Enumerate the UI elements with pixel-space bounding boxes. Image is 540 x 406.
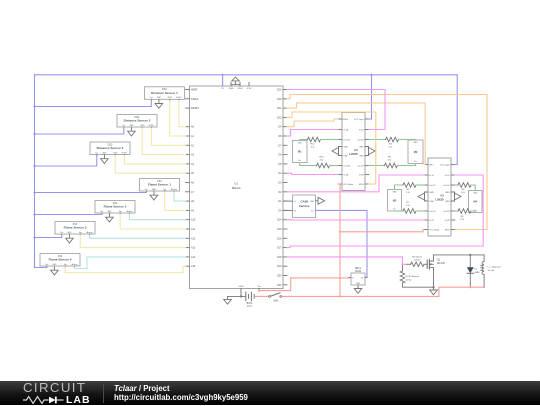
svg-text:6 Ω: 6 Ω bbox=[389, 147, 393, 149]
svg-text:R4: R4 bbox=[389, 144, 393, 146]
svg-text:EN D: EN D bbox=[445, 230, 450, 232]
svg-text:A13: A13 bbox=[191, 247, 196, 250]
svg-text:D20: D20 bbox=[277, 275, 282, 278]
wire DS1 TRIG to U1 A1 bbox=[170, 101, 186, 137]
svg-text:In: In bbox=[352, 278, 354, 280]
wire 5V branch to FS2 Vcc bbox=[35, 213, 102, 215]
svg-text:Camera: Camera bbox=[299, 204, 310, 208]
ground at Q1 source bbox=[433, 287, 435, 290]
wire 5V to U3 VCC Logic bbox=[455, 75, 457, 165]
svg-text:GND: GND bbox=[359, 147, 364, 149]
ground below DS3 bbox=[103, 156, 105, 159]
ground below DS1 bbox=[158, 101, 160, 104]
sensor DS2 Distance Sensor 2 bbox=[117, 115, 157, 128]
svg-text:In 2D: In 2D bbox=[445, 220, 450, 222]
svg-text:M4: M4 bbox=[473, 200, 477, 204]
wire battery rail bbox=[282, 287, 485, 296]
svg-text:In 1C: In 1C bbox=[429, 175, 434, 177]
svg-text:TRIG: TRIG bbox=[113, 152, 118, 154]
wire U1 D13 to U2 In1B bbox=[287, 90, 385, 130]
svg-text:GND: GND bbox=[343, 147, 348, 149]
svg-text:Out 1A: Out 1A bbox=[343, 139, 350, 142]
svg-text:10 kΩ: 10 kΩ bbox=[406, 279, 412, 281]
svg-text:Vcc: Vcc bbox=[145, 189, 148, 191]
wire to U3 VCC Motor bbox=[340, 230, 424, 232]
wire 5V branch to FS4 Vcc bbox=[35, 266, 47, 268]
svg-text:Analog: Analog bbox=[72, 263, 78, 266]
battery BAT1 12V bbox=[228, 295, 246, 297]
svg-text:GND: GND bbox=[229, 88, 234, 90]
svg-text:IRF130: IRF130 bbox=[437, 262, 446, 265]
svg-text:Analog: Analog bbox=[87, 231, 93, 234]
svg-text:GND: GND bbox=[359, 156, 364, 158]
motor M1 bbox=[293, 141, 308, 163]
svg-text:Out 1C: Out 1C bbox=[429, 184, 436, 187]
wire DS1 ECHO to U1 A0 bbox=[179, 101, 186, 127]
wire DS2 ECHO to U1 A2 bbox=[151, 128, 185, 145]
svg-text:M2: M2 bbox=[414, 150, 418, 154]
svg-text:Vcc: Vcc bbox=[100, 211, 103, 213]
op-amp U1 Arduino MEGA microcontroller bbox=[190, 86, 284, 289]
svg-text:VCC Motor: VCC Motor bbox=[429, 229, 439, 232]
svg-text:GND: GND bbox=[157, 97, 162, 99]
svg-text:270 Ω: 270 Ω bbox=[414, 260, 420, 262]
wire U1 D11 to U3 EN C bbox=[287, 103, 425, 165]
ground below FS2 bbox=[108, 214, 110, 217]
sensor DS1 Distance Sensor 1 bbox=[145, 87, 185, 100]
wire FS3 Dig to U1 A13 bbox=[80, 235, 185, 247]
wire U1 D9 to U2 EN A bbox=[287, 119, 338, 127]
svg-text:Dig: Dig bbox=[119, 211, 122, 213]
svg-text:D17: D17 bbox=[277, 247, 282, 250]
svg-text:D13: D13 bbox=[277, 89, 282, 92]
resistor R7 6ohm + wire U3 Out2C to M3 bottom bbox=[395, 210, 404, 212]
motor M4 bbox=[469, 191, 483, 213]
CircuitLab logo bbox=[23, 383, 95, 406]
wire 5V branch to DS3 Vcc bbox=[35, 156, 97, 166]
resistor R4 6ohm + wire U2 Out1B to M2 top bbox=[369, 139, 386, 141]
svg-text:TRIG: TRIG bbox=[140, 125, 145, 127]
svg-text:Out 2D: Out 2D bbox=[443, 210, 450, 213]
wire VCC Motor feed vertical bbox=[339, 184, 341, 296]
wire U1 D18 to Q1 gate resistor bbox=[287, 257, 407, 264]
svg-text:Vcc: Vcc bbox=[393, 209, 396, 211]
svg-text:R10: R10 bbox=[319, 156, 324, 158]
ground below FS4 bbox=[53, 267, 55, 270]
ground flag above U1 GND pins bbox=[231, 84, 240, 86]
svg-text:12 V: 12 V bbox=[247, 305, 252, 308]
ground at battery negative bbox=[227, 296, 229, 299]
svg-text:GND: GND bbox=[343, 156, 348, 158]
svg-text:Analog: Analog bbox=[127, 210, 133, 213]
svg-text:A15: A15 bbox=[191, 265, 196, 268]
ground below SRV1 bbox=[357, 285, 359, 289]
svg-text:Dig: Dig bbox=[64, 264, 67, 266]
op-amp U2 L293D motor driver bbox=[342, 113, 365, 191]
wire 5V branch to DS2 Vcc bbox=[35, 128, 124, 134]
svg-text:Vcc: Vcc bbox=[311, 210, 314, 212]
wire U1 D14 to U3 In2C bbox=[287, 219, 424, 221]
svg-text:Distance Sensor 1: Distance Sensor 1 bbox=[151, 91, 178, 95]
svg-text:SG90: SG90 bbox=[355, 270, 362, 273]
resistor R10 6ohm + wire U2 Out2A to M1 bottom bbox=[300, 163, 317, 166]
wire U1 D12 to U3 EN D bbox=[287, 95, 487, 230]
svg-text:GND: GND bbox=[393, 192, 398, 194]
ground below FS1 bbox=[153, 192, 155, 195]
svg-text:GND: GND bbox=[238, 88, 243, 90]
wire U1 D10 to U2 EN B bbox=[287, 112, 376, 184]
wire FS1 Analog to U1 A8 bbox=[174, 192, 186, 201]
sensor FS4 Flame Sensor 4 bbox=[40, 254, 80, 267]
svg-text:VCC Logic: VCC Logic bbox=[354, 119, 364, 121]
resistor R9 6ohm + wire U3 Out2D to M4 bottom bbox=[455, 210, 458, 212]
svg-text:Out 1B: Out 1B bbox=[357, 139, 364, 142]
svg-text:Flame Sensor 3: Flame Sensor 3 bbox=[64, 226, 87, 230]
svg-text:Vcc: Vcc bbox=[95, 152, 98, 154]
svg-text:GND: GND bbox=[445, 192, 450, 194]
wire Vin loop from U1 Vin bbox=[259, 278, 349, 292]
wire 5V branch to DS1 Vcc bbox=[35, 101, 152, 107]
svg-text:Vcc: Vcc bbox=[150, 97, 153, 99]
wire U1 D4 to U2 In2A bbox=[287, 173, 338, 174]
wire U1 D2 to U3 In1C bbox=[287, 175, 424, 192]
svg-text:ECHO: ECHO bbox=[149, 125, 155, 127]
switch SW1 bbox=[255, 295, 269, 297]
camera CAM1 bbox=[293, 195, 316, 218]
svg-text:R3: R3 bbox=[388, 156, 392, 158]
svg-text:ECHO: ECHO bbox=[122, 152, 128, 154]
svg-text:GND: GND bbox=[445, 201, 450, 203]
svg-text:RESET: RESET bbox=[191, 107, 200, 110]
svg-text:In 2B: In 2B bbox=[359, 175, 364, 177]
svg-text:3.3V: 3.3V bbox=[247, 88, 252, 90]
svg-text:R3 (Pulldown): R3 (Pulldown) bbox=[406, 276, 420, 278]
svg-text:Vcc: Vcc bbox=[414, 161, 417, 163]
svg-text:GND: GND bbox=[239, 286, 244, 288]
resistor R12 6ohm + wire U2 Out1A to M1 top bbox=[300, 140, 308, 141]
wire 5V to U2 VCC Logic bbox=[369, 75, 372, 119]
svg-text:GND: GND bbox=[67, 232, 72, 234]
svg-text:D14: D14 bbox=[277, 219, 282, 222]
sensor FS1 Flame Sensor 1 bbox=[140, 179, 180, 192]
svg-text:GND: GND bbox=[129, 125, 134, 127]
svg-text:IOREF: IOREF bbox=[191, 98, 199, 101]
svg-text:SW1: SW1 bbox=[273, 300, 279, 303]
svg-text:EN C: EN C bbox=[429, 165, 434, 167]
svg-text:GND: GND bbox=[102, 152, 107, 154]
svg-text:Out 2B: Out 2B bbox=[357, 165, 364, 168]
svg-text:In 2A: In 2A bbox=[343, 174, 348, 177]
wire 5V blue bus bbox=[35, 74, 458, 76]
svg-text:D19: D19 bbox=[277, 265, 282, 268]
svg-text:VCC Motor: VCC Motor bbox=[343, 183, 353, 186]
svg-text:MEGA: MEGA bbox=[232, 186, 241, 190]
svg-text:GND: GND bbox=[429, 201, 434, 203]
svg-text:Dig: Dig bbox=[163, 189, 166, 191]
svg-text:6 Ω: 6 Ω bbox=[406, 205, 410, 207]
resistor R3 pulldown 10kohm bbox=[400, 271, 405, 283]
svg-text:Analog: Analog bbox=[171, 188, 177, 191]
svg-text:A12: A12 bbox=[191, 237, 196, 240]
svg-text:10 mH: 10 mH bbox=[488, 270, 495, 272]
svg-text:Out 1D: Out 1D bbox=[443, 184, 450, 187]
svg-text:R8: R8 bbox=[462, 189, 466, 191]
wire 5V branch to FS1 Vcc bbox=[35, 191, 147, 193]
svg-text:Flame Sensor 4: Flame Sensor 4 bbox=[49, 258, 72, 262]
transistor Q1 IRF130 bbox=[426, 260, 428, 268]
svg-text:5MM: 5MM bbox=[475, 272, 480, 274]
svg-text:A11: A11 bbox=[191, 228, 196, 231]
svg-text:Flame Sensor 2: Flame Sensor 2 bbox=[104, 205, 127, 209]
svg-text:GND: GND bbox=[473, 193, 478, 195]
motor M3 bbox=[388, 190, 402, 212]
svg-text:GND: GND bbox=[298, 143, 303, 145]
op-amp U3 L293D motor driver bbox=[428, 158, 451, 236]
wire FS3 Analog to U1 A12 bbox=[89, 235, 185, 238]
ground right of CAM1 GND pin bbox=[316, 200, 319, 202]
svg-text:In 1A: In 1A bbox=[343, 129, 348, 132]
svg-text:L293D: L293D bbox=[349, 152, 357, 156]
ground below DS2 bbox=[130, 128, 132, 131]
svg-text:R9: R9 bbox=[461, 216, 465, 218]
svg-text:A10: A10 bbox=[191, 219, 196, 222]
svg-text:D10: D10 bbox=[277, 116, 282, 119]
resistor R3 6ohm + wire U2 Out2B to M2 bottom bbox=[369, 165, 385, 167]
motor M2 bbox=[408, 140, 423, 164]
svg-text:Vcc: Vcc bbox=[45, 264, 48, 266]
svg-text:Distance Sensor 2: Distance Sensor 2 bbox=[124, 119, 151, 123]
wire FS4 Dig to U1 A15 bbox=[65, 266, 185, 272]
wire DS2 TRIG to U1 A3 bbox=[142, 128, 185, 154]
svg-text:D11: D11 bbox=[277, 107, 282, 110]
wire Q1 drain rail bbox=[434, 254, 485, 256]
wire DS3 TRIG to U1 A5 bbox=[115, 156, 185, 174]
wire U1 D8 to U2 In1A bbox=[287, 130, 338, 137]
svg-text:6 Ω: 6 Ω bbox=[461, 192, 465, 194]
resistor R8 6ohm + wire U3 Out1D to M4 top bbox=[455, 184, 458, 186]
resistor R2 gate 270ohm bbox=[411, 262, 425, 267]
svg-text:Distance Sensor 3: Distance Sensor 3 bbox=[97, 146, 124, 150]
svg-text:L1 - Solenoid: L1 - Solenoid bbox=[488, 267, 502, 269]
svg-text:6 Ω: 6 Ω bbox=[388, 160, 392, 162]
diode D1 LED bbox=[469, 255, 471, 267]
svg-text:R12: R12 bbox=[310, 144, 315, 146]
svg-text:Vcc: Vcc bbox=[60, 232, 63, 234]
svg-text:GND: GND bbox=[310, 201, 315, 203]
svg-text:6 Ω: 6 Ω bbox=[406, 192, 410, 194]
svg-text:In 2C: In 2C bbox=[429, 220, 434, 222]
wire FS2 Dig to U1 A11 bbox=[120, 214, 185, 229]
svg-text:A14: A14 bbox=[191, 256, 196, 259]
svg-text:D12: D12 bbox=[277, 98, 282, 101]
svg-text:Dig: Dig bbox=[79, 232, 82, 234]
svg-text:EN B: EN B bbox=[359, 184, 364, 186]
svg-text:Out 2C: Out 2C bbox=[429, 210, 436, 213]
svg-text:M1: M1 bbox=[298, 150, 302, 154]
svg-text:U1: U1 bbox=[234, 182, 238, 186]
svg-text:R2 (Gate): R2 (Gate) bbox=[412, 255, 422, 258]
svg-text:D16: D16 bbox=[277, 237, 282, 240]
svg-text:GND: GND bbox=[107, 211, 112, 213]
svg-text:AREF: AREF bbox=[191, 89, 198, 92]
svg-text:6 Ω: 6 Ω bbox=[320, 160, 324, 162]
svg-text:GND: GND bbox=[152, 189, 157, 191]
svg-text:D21: D21 bbox=[277, 284, 282, 287]
svg-text:EN A: EN A bbox=[343, 118, 348, 121]
svg-text:R7: R7 bbox=[407, 202, 411, 204]
inductor L1 solenoid 10mH bbox=[483, 255, 485, 262]
svg-text:6 Ω: 6 Ω bbox=[311, 147, 315, 149]
svg-text:Vcc: Vcc bbox=[122, 125, 125, 127]
wire 5V branch to FS3 Vcc bbox=[35, 235, 62, 237]
svg-text:GND: GND bbox=[429, 192, 434, 194]
svg-text:Out 2A: Out 2A bbox=[343, 165, 350, 168]
wire U1 D0 to CAM1 Rx bbox=[283, 209, 293, 211]
ground below FS3 bbox=[68, 235, 70, 238]
svg-text:In 1B: In 1B bbox=[359, 130, 364, 132]
svg-text:D18: D18 bbox=[277, 256, 282, 259]
svg-text:Vcc: Vcc bbox=[298, 160, 301, 162]
wire U1 D17 to U3 In1D bbox=[287, 175, 483, 248]
svg-text:VCC Logic: VCC Logic bbox=[440, 165, 450, 167]
wire FS4 Analog to U1 A14 bbox=[74, 257, 185, 269]
svg-text:Tx: Tx bbox=[294, 201, 296, 203]
svg-text:6 Ω: 6 Ω bbox=[460, 219, 464, 221]
svg-text:GND: GND bbox=[414, 142, 419, 144]
svg-text:D15: D15 bbox=[277, 228, 282, 231]
svg-text:GND: GND bbox=[52, 264, 57, 266]
wire FS2 Analog to U1 A10 bbox=[129, 214, 185, 220]
svg-text:TRIG: TRIG bbox=[168, 97, 173, 99]
sensor FS2 Flame Sensor 2 bbox=[95, 201, 135, 214]
svg-text:D1: D1 bbox=[475, 269, 479, 271]
svg-text:ECHO: ECHO bbox=[176, 97, 182, 99]
svg-text:L293D: L293D bbox=[435, 198, 443, 202]
svg-text:Vcc: Vcc bbox=[361, 278, 364, 280]
wire CAM1 Vcc to SRV1 Vcc (5V) bbox=[316, 210, 368, 277]
svg-text:Flame Sensor 1: Flame Sensor 1 bbox=[148, 183, 171, 187]
wire FS1 Dig to U1 A9 bbox=[165, 192, 186, 210]
resistor R6 6ohm + wire U3 Out1C to M3 top bbox=[395, 185, 404, 190]
project title bbox=[114, 385, 248, 402]
wire DS3 ECHO to U1 A4 bbox=[124, 156, 185, 164]
sensor DS3 Distance Sensor 3 bbox=[90, 142, 130, 155]
svg-text:M3: M3 bbox=[393, 198, 397, 202]
servo SRV1 bbox=[351, 273, 365, 285]
svg-text:In 1D: In 1D bbox=[445, 175, 450, 177]
sensor FS3 Flame Sensor 3 bbox=[55, 222, 95, 235]
wire 5V drop to U1 5V pin bbox=[222, 75, 224, 86]
svg-text:Rx: Rx bbox=[294, 210, 296, 212]
wire U1 D1 to CAM1 Tx bbox=[283, 200, 293, 202]
svg-text:R6: R6 bbox=[407, 189, 411, 191]
